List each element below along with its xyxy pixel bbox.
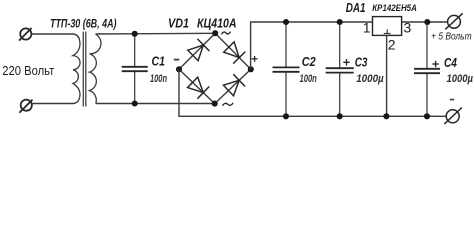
node C1 top junction	[132, 31, 138, 37]
wire DA1 common symbol	[384, 29, 391, 33]
wire top AC rail	[96, 32, 216, 35]
wire bridge side L-B	[179, 69, 215, 103]
wire DA1 pin2 wire	[386, 35, 388, 116]
diode VD1.2 upper-right	[224, 42, 246, 64]
terminal input XS1 (220V line)	[19, 28, 32, 41]
diode VD1.4 lower-right	[223, 74, 245, 96]
diode VD1.3 lower-left	[188, 77, 210, 99]
node C4 bottom junction	[424, 113, 430, 119]
polarity plus bridge plus mark	[252, 56, 258, 62]
svg-text:220 Вольт: 220 Вольт	[2, 63, 54, 78]
svg-text:C2: C2	[302, 55, 316, 69]
terminal output minus	[444, 108, 462, 125]
svg-text:ТТП-30 (6В, 4А): ТТП-30 (6В, 4А)	[50, 17, 117, 31]
polarity plus C3 polarity	[343, 59, 349, 65]
svg-text:3: 3	[404, 20, 412, 36]
svg-text:КР142ЕН5А: КР142ЕН5А	[372, 3, 417, 14]
terminal input XS2 (220V neutral)	[19, 100, 32, 113]
node C2 bottom junction	[283, 113, 289, 119]
regulator DA1 body	[373, 17, 402, 36]
node C1 bottom junction	[132, 100, 138, 106]
node C3 bottom junction	[337, 113, 343, 119]
svg-text:1: 1	[363, 20, 371, 36]
wire output minus mark	[450, 99, 454, 101]
wire bottom AC rail	[96, 103, 215, 105]
wire +5V rail after regulator	[402, 21, 448, 23]
capacitor C2	[273, 22, 300, 116]
svg-text:1000µ: 1000µ	[447, 73, 474, 85]
svg-text:+ 5 Вольт: + 5 Вольт	[431, 32, 472, 43]
wire plus output wire	[251, 22, 373, 69]
node C4 top junction	[424, 19, 430, 25]
capacitor C4	[414, 22, 440, 116]
svg-text:C4: C4	[444, 56, 457, 70]
ac mark bottom AC	[222, 103, 233, 106]
ac mark top AC	[222, 32, 231, 35]
diode VD1.1 upper-left	[188, 39, 210, 61]
node bridge minus corner	[176, 66, 182, 72]
node C3 top junction	[337, 19, 343, 25]
svg-text:100n: 100n	[300, 73, 317, 85]
svg-text:DA1: DA1	[346, 0, 366, 15]
wire transformer core	[83, 32, 86, 107]
capacitor C3	[326, 22, 354, 116]
wire bridge side L-T	[179, 33, 215, 69]
svg-text:C3: C3	[355, 55, 368, 69]
wire primary top lead	[31, 34, 80, 41]
wire transformer primary winding	[73, 41, 80, 98]
wire bridge side T-R	[215, 33, 251, 69]
svg-text:C1: C1	[152, 55, 165, 69]
wire primary bottom lead	[32, 97, 79, 103]
svg-text:VD1: VD1	[168, 17, 189, 31]
svg-text:1000µ: 1000µ	[356, 73, 384, 85]
polarity plus C4 polarity	[432, 61, 438, 67]
node C2 top junction	[283, 19, 289, 25]
node bridge plus corner	[248, 66, 254, 72]
wire minus output wire	[179, 69, 446, 116]
capacitor C1	[122, 34, 148, 104]
wire bridge side B-R	[215, 69, 251, 103]
svg-text:КЦ410А: КЦ410А	[197, 17, 237, 31]
terminal output +5V	[445, 13, 462, 29]
node bridge AC top corner	[212, 30, 218, 36]
wire bridge minus mark	[174, 59, 179, 61]
node bridge AC bottom corner	[212, 101, 218, 107]
svg-text:2: 2	[388, 36, 396, 52]
wire transformer secondary winding	[90, 34, 101, 103]
node pin2 ground junction	[383, 113, 389, 119]
svg-text:100n: 100n	[150, 73, 167, 85]
